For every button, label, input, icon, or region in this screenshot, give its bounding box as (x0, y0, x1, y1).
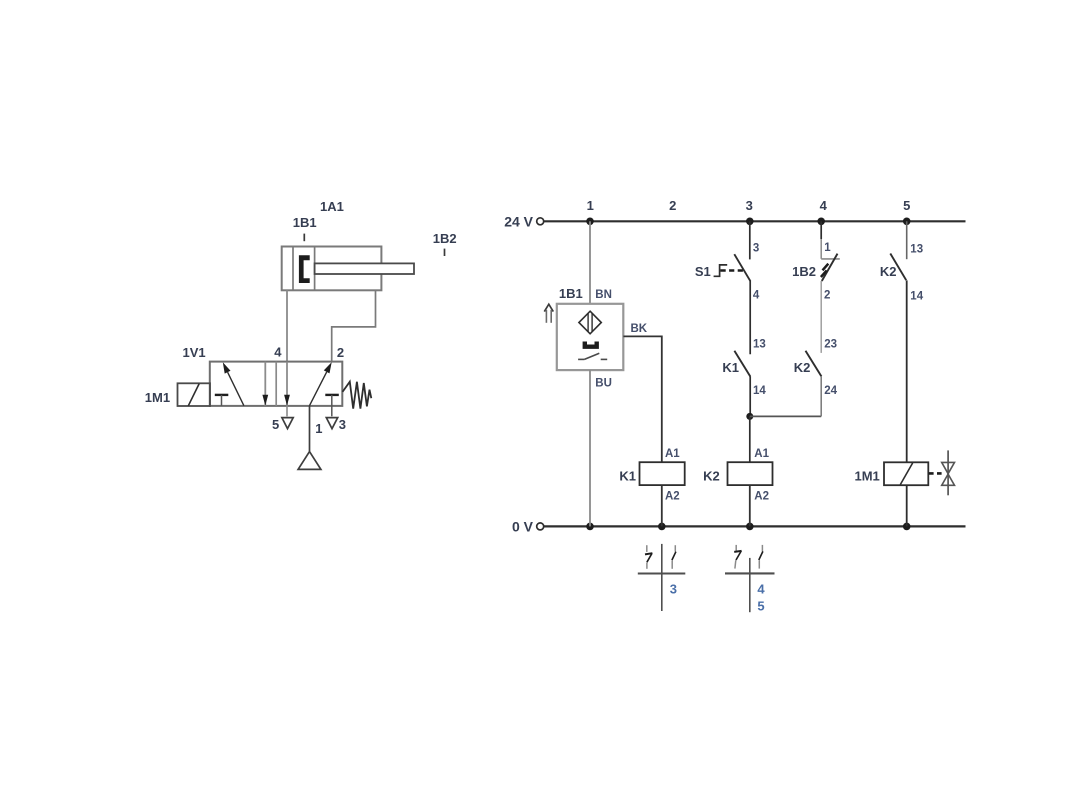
dashed link 1M1 to valve symbol (929, 472, 942, 475)
svg-text:1B1: 1B1 (559, 286, 583, 301)
magnet symbol (583, 342, 599, 349)
svg-text:5: 5 (757, 598, 764, 613)
svg-text:K1: K1 (619, 468, 636, 483)
pushbutton S1 contact blade (734, 254, 750, 281)
24V supply rail (544, 220, 966, 222)
svg-text:5: 5 (272, 417, 279, 432)
wire branch col3 to col4 (750, 415, 821, 417)
svg-text:1B1: 1B1 (293, 215, 317, 230)
wire 1B2 to K2 contact (820, 281, 822, 353)
tick under label 1B1 (303, 234, 305, 242)
svg-text:3: 3 (746, 198, 753, 213)
svg-text:13: 13 (753, 339, 766, 351)
valve cross-reference symbol (942, 450, 955, 495)
return spring (343, 382, 372, 409)
wire K2 contact to branch (820, 376, 822, 416)
wire S1 to K1 contact (749, 281, 751, 354)
wire cylinder right port to valve port 2 (332, 290, 376, 361)
0V rail (544, 525, 966, 527)
supply port 1 (298, 406, 321, 470)
svg-text:14: 14 (753, 385, 766, 397)
svg-text:1: 1 (824, 242, 831, 254)
svg-text:3: 3 (753, 242, 759, 254)
exhaust port 3 (326, 418, 337, 429)
svg-text:A1: A1 (754, 448, 769, 460)
wire K1 coil to 0V (661, 485, 663, 526)
svg-text:2: 2 (824, 290, 830, 302)
svg-text:2: 2 (337, 345, 344, 360)
piston rod (315, 263, 414, 274)
relay coil K2 (728, 462, 773, 485)
actuation arrow (544, 304, 553, 323)
svg-text:5: 5 (903, 198, 910, 213)
valve left box flow line (vertical, arrow down) (262, 362, 268, 406)
sensor 1B1 box (557, 304, 624, 370)
svg-text:4: 4 (274, 344, 282, 359)
piston magnet marker (299, 255, 310, 283)
node bottom rail col3 (746, 523, 754, 531)
sensor symbol diamond (579, 311, 601, 334)
wire K2 contact to 1M1 coil (906, 280, 908, 462)
1B2 fixed contact stub (821, 258, 840, 260)
svg-text:BU: BU (595, 378, 612, 390)
valve 1V1 body (210, 362, 342, 406)
contact K2 (NO) blade rung4 (806, 351, 822, 377)
solenoid 1M1 (pneumatic) (178, 383, 211, 406)
svg-text:BN: BN (595, 289, 612, 301)
node bottom rail col5 (903, 523, 911, 531)
node bottom rail col1 (586, 523, 594, 531)
wire cylinder left port to valve port 4 (286, 290, 288, 361)
svg-text:A2: A2 (665, 490, 680, 502)
valve left box blocked port T (215, 395, 229, 406)
svg-text:2: 2 (669, 198, 676, 213)
svg-text:13: 13 (910, 244, 923, 256)
wire rail to K2 contact rung5 (906, 221, 908, 259)
svg-text:4: 4 (753, 290, 760, 302)
valve right box flow line 4-5 (vertical, arrow down) (284, 362, 290, 406)
svg-text:K2: K2 (880, 264, 897, 279)
svg-text:S1: S1 (695, 264, 711, 279)
svg-text:3: 3 (339, 417, 346, 432)
exhaust port 5 (282, 406, 293, 429)
node junction col3 (746, 413, 753, 420)
svg-text:1M1: 1M1 (855, 468, 880, 483)
svg-text:K2: K2 (794, 360, 811, 375)
svg-text:3: 3 (670, 581, 677, 596)
wire K1 contact to junction (749, 376, 751, 416)
wire junction to K2 coil (749, 416, 751, 462)
node top rail col3 (746, 218, 754, 226)
24V terminal circle (537, 218, 544, 225)
svg-text:4: 4 (820, 198, 828, 213)
svg-text:14: 14 (910, 290, 923, 302)
valve right box blocked port T (325, 395, 339, 416)
svg-text:1B2: 1B2 (792, 264, 816, 279)
svg-text:1B2: 1B2 (433, 231, 457, 246)
node top rail col4 (817, 218, 825, 226)
contact K2 (NO) blade rung5 (890, 254, 906, 281)
svg-text:K2: K2 (703, 468, 720, 483)
wire rail to S1 (749, 221, 751, 259)
wire sensor to 0V rail (589, 370, 591, 526)
solenoid coil 1M1 (electrical) (884, 462, 928, 485)
svg-text:K1: K1 (722, 360, 739, 375)
contact mirror table K1 (638, 544, 686, 611)
relay coil K1 (640, 462, 685, 485)
contact K1 (NO) blade (734, 351, 750, 377)
node top rail col5 (903, 218, 911, 226)
valve right box flow arrow 1-2 (diagonal) (309, 362, 331, 406)
svg-text:1V1: 1V1 (183, 345, 206, 360)
svg-text:24: 24 (824, 385, 837, 397)
cylinder 1A1 body (282, 247, 382, 291)
wire rail to sensor 1B1 (589, 221, 591, 303)
0V terminal circle (537, 523, 544, 530)
tick under label 1B2 (444, 249, 446, 256)
wire rail to 1B2 (820, 221, 822, 258)
svg-text:1: 1 (315, 421, 322, 436)
svg-text:1A1: 1A1 (320, 199, 344, 214)
svg-text:A2: A2 (754, 490, 769, 502)
node top rail col1 (586, 218, 594, 226)
contact 1B2 (reed) blade (821, 254, 838, 281)
wire 1M1 coil to 0V (906, 485, 908, 526)
svg-text:23: 23 (824, 339, 837, 351)
svg-text:1M1: 1M1 (145, 390, 170, 405)
svg-text:24 V: 24 V (504, 213, 533, 229)
svg-text:0 V: 0 V (512, 518, 534, 534)
svg-text:4: 4 (757, 582, 765, 597)
svg-text:1: 1 (587, 198, 594, 213)
node bottom rail col2 (658, 523, 666, 531)
S1 manual actuator (714, 265, 744, 276)
wire K2 coil to 0V (749, 485, 751, 526)
contact mirror table K2 (725, 545, 775, 612)
valve left box flow arrow (diagonal) (223, 362, 244, 405)
sensor switch contact (578, 353, 607, 359)
svg-text:BK: BK (631, 323, 648, 335)
wire BK sensor to K1 coil (623, 336, 661, 462)
svg-text:A1: A1 (665, 448, 680, 460)
